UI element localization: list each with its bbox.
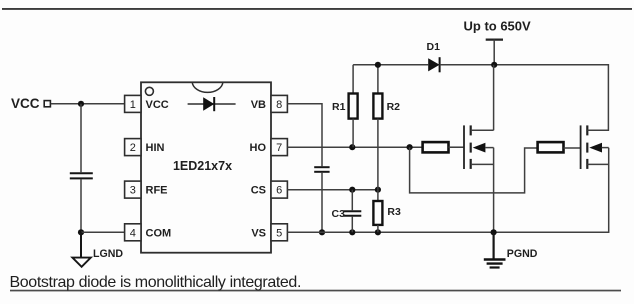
pin 7 (HO) — [271, 139, 287, 156]
svg-text:4: 4 — [130, 227, 136, 239]
svg-text:COM: COM — [146, 227, 172, 239]
resistor R3 — [373, 190, 401, 233]
junction COM node — [78, 229, 84, 235]
resistor R1 — [332, 65, 358, 147]
wire bootstrap capacitor to VS line — [321, 173, 323, 233]
svg-text:HO: HO — [250, 142, 267, 154]
transistor Q2 (MOSFET) — [581, 125, 609, 169]
svg-text:1ED21x7x: 1ED21x7x — [173, 159, 232, 173]
svg-text:8: 8 — [276, 99, 282, 111]
svg-text:R3: R3 — [387, 206, 401, 218]
wire 650V rail (R1 top to D1 anode) — [353, 64, 428, 66]
IC U1 1ED21x7x body — [141, 82, 271, 252]
resistor (gate of Q2) — [538, 142, 581, 152]
wire HO branch down-across-up to gate resistor of Q2 — [410, 147, 538, 193]
junction C3 top on CS line — [349, 187, 355, 193]
ground PGND — [484, 232, 538, 267]
diode D1 — [427, 41, 441, 72]
junction Q1 source / PGND on VS line — [491, 229, 497, 235]
svg-text:2: 2 — [130, 142, 136, 154]
wire D1 cathode to 650V node and Q2 drain — [440, 65, 609, 130]
wire capacitor to COM node — [80, 179, 82, 232]
pin 6 (CS) — [271, 181, 287, 198]
pin 2 (HIN) — [125, 139, 141, 156]
svg-text:RFE: RFE — [146, 185, 168, 197]
wire VS pin 5 to Q2 source — [287, 148, 608, 233]
svg-text:VCC: VCC — [146, 99, 169, 111]
svg-text:VB: VB — [251, 99, 266, 111]
pin 1 (VCC) — [125, 95, 141, 112]
svg-text:1: 1 — [130, 99, 136, 111]
svg-text:5: 5 — [276, 227, 282, 239]
junction R3 bottom on VS line — [375, 229, 381, 235]
svg-text:VCC: VCC — [11, 96, 40, 111]
svg-text:Up to 650V: Up to 650V — [464, 19, 532, 34]
svg-text:6: 6 — [276, 185, 282, 197]
capacitor (VCC decoupling) — [70, 173, 93, 178]
svg-text:R1: R1 — [332, 101, 346, 113]
wire VCC terminal to pin 1 — [51, 103, 125, 105]
svg-text:7: 7 — [276, 142, 282, 154]
bootstrap diode (internal, VCC to VB) — [188, 97, 236, 111]
junction R1 bottom on HO line — [349, 144, 355, 150]
wire HO pin 7 to gate of Q1 — [287, 146, 464, 148]
transistor Q1 (MOSFET) — [464, 125, 494, 169]
svg-text:3: 3 — [130, 185, 136, 197]
svg-text:LGND: LGND — [93, 248, 123, 260]
resistor R2 — [373, 65, 400, 190]
junction VCC node — [78, 101, 84, 107]
wire VCC node down to capacitor — [80, 104, 82, 172]
resistor (gate of Q1) — [423, 142, 464, 152]
wire COM node to pin 4 — [81, 231, 125, 233]
wire Q1 drain to 650V node — [493, 65, 495, 131]
junction C3 bottom on VS line — [349, 229, 355, 235]
wire CS pin 6 to R2/R3 node — [287, 189, 378, 191]
pin 3 (RFE) — [125, 181, 141, 198]
supply terminal bar 650V — [486, 40, 503, 65]
svg-text:PGND: PGND — [507, 248, 538, 260]
node VCC (input terminal) — [11, 96, 50, 111]
junction HO to Q2 branch — [407, 144, 413, 150]
svg-text:D1: D1 — [427, 41, 441, 53]
wire VB pin 8 to bootstrap capacitor branch — [287, 104, 322, 166]
svg-text:C3: C3 — [332, 208, 346, 220]
capacitor (bootstrap, VB to VS) — [314, 167, 329, 172]
junction 650V node (Q1 drain) — [491, 62, 497, 68]
svg-text:CS: CS — [251, 185, 266, 197]
svg-text:Bootstrap diode is monolithica: Bootstrap diode is monolithically integr… — [10, 274, 302, 291]
ground LGND — [72, 232, 123, 266]
junction R2/R3 on CS line — [375, 187, 381, 193]
svg-text:R2: R2 — [387, 101, 401, 113]
pin 5 (VS) — [271, 224, 287, 241]
capacitor C3 — [332, 190, 362, 233]
svg-text:HIN: HIN — [146, 142, 165, 154]
junction bootstrap cap on VS line — [319, 229, 325, 235]
junction R2 top on rail — [375, 62, 381, 68]
pin 8 (VB) — [271, 95, 287, 112]
wire Q1 source/body down to VS line — [493, 148, 495, 233]
svg-text:VS: VS — [251, 227, 266, 239]
pin 4 (COM) — [125, 224, 141, 241]
